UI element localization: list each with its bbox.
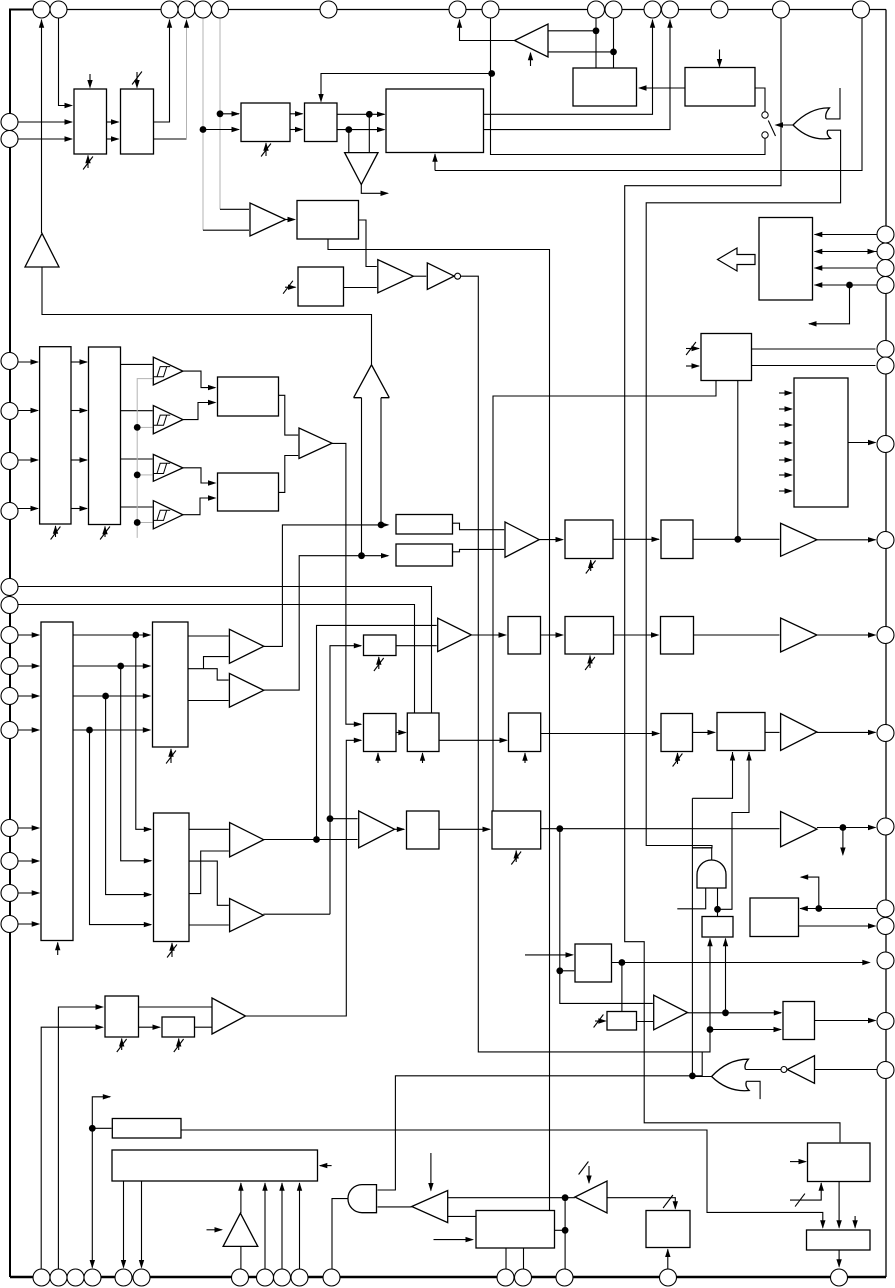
block D1	[298, 267, 344, 306]
bottom pin circles	[33, 1269, 50, 1286]
block AA2	[807, 1230, 871, 1250]
amp T13	[781, 714, 817, 751]
wire OR1 out to switch	[777, 124, 794, 126]
clock arrow A2 top	[136, 72, 138, 88]
wire pin c15 staircase to block AA1	[625, 18, 840, 1142]
wire net x316 T15-out up to T9	[317, 625, 437, 839]
wire X2 out to T18	[195, 1026, 212, 1028]
wire pin row into C1	[18, 361, 38, 363]
wire G1 out to T11	[453, 523, 505, 530]
wire T5 output long net to AND2 and W1	[461, 276, 710, 1052]
stub arrow into AA1 left	[790, 1161, 806, 1163]
wire T19 base to pin 240	[240, 1246, 242, 1269]
wire pin 265 up into Y2	[264, 1183, 266, 1269]
wire T20 out to AND3	[378, 1206, 412, 1208]
amp T3	[299, 428, 332, 459]
block K2a	[364, 714, 397, 752]
up amp T19	[223, 1213, 258, 1246]
block P2	[661, 617, 694, 655]
wire T11 to Q1	[539, 539, 562, 541]
amp TA	[229, 629, 263, 663]
block H1	[661, 520, 693, 559]
block Z1	[476, 1211, 555, 1249]
clock stub into D1	[285, 286, 296, 288]
vertical net x693 AND output	[691, 798, 693, 1076]
wire X1 to X2	[139, 1026, 160, 1028]
wire C3 out to T3	[279, 395, 299, 435]
wire pin2 to block A1	[59, 18, 72, 106]
arrow into A1 top	[89, 74, 91, 88]
wire Bh4 to C4	[183, 498, 215, 515]
wires Z1 bottom to pins 505 522	[505, 1248, 507, 1269]
stub arrow into E3	[779, 408, 792, 410]
amp T11	[505, 522, 539, 557]
wire P2 to T7	[694, 634, 780, 636]
clock arrow I3 bottom	[171, 943, 173, 957]
amp T18	[212, 998, 246, 1034]
wire Y1 out staircase to AA2	[181, 1130, 823, 1228]
wire D0 out jog to T4	[359, 220, 377, 267]
wire pin row into F1	[18, 695, 39, 697]
block M2	[661, 714, 693, 752]
wire pin c11 into B5 with tap to T_top	[613, 18, 615, 68]
amp T16	[230, 899, 264, 932]
wire pin 268 to E1	[815, 267, 878, 269]
wire F2 out1 to TA	[188, 635, 229, 637]
amp T7	[781, 618, 817, 652]
wire Bh3 to C4	[183, 468, 215, 483]
wire pin row into F1	[18, 729, 39, 731]
buffer T4	[378, 260, 414, 293]
wire AND3 out to pin 331	[332, 1199, 348, 1269]
wire pin row into F1	[18, 892, 39, 894]
AND gate AND1 pointing up	[697, 860, 726, 888]
wire TA up to G1 (W_a)	[264, 525, 388, 647]
wire F1 to F2 with tap to I3	[73, 665, 150, 667]
block E3	[794, 378, 848, 507]
block BB1	[646, 1211, 690, 1248]
wire T6 to pin 540	[817, 539, 876, 541]
wires B1 to B2	[290, 113, 303, 115]
wire X1 out1 to T18	[139, 1006, 212, 1008]
wire K2a to K2b	[396, 732, 406, 734]
wire B3 out2 to pin c13	[484, 20, 671, 130]
arrow into T_top bottom	[530, 53, 532, 66]
block C3	[218, 377, 279, 416]
wire M3 to T13	[765, 731, 780, 733]
right pin circles	[877, 226, 894, 243]
wire I3 out2 jog to T16	[189, 861, 229, 905]
wire AND1 output up-left to x693 net and OR1 net	[692, 848, 711, 860]
wire A2 out2 to pin c4 (gray riser)	[154, 138, 187, 140]
OR1 input1 stub from above	[826, 88, 840, 119]
wire T22 out to OR2	[745, 1069, 781, 1071]
wire P1 to P2	[614, 634, 659, 636]
wire pin c9 to switch contact	[491, 18, 766, 155]
stub arrow into E3	[779, 490, 792, 492]
wire B6 right to switch upper contact	[755, 88, 765, 112]
big arrow shaft right line	[380, 398, 382, 525]
stub arrow into Z1	[434, 1239, 473, 1241]
wire K2b to M1	[439, 739, 507, 741]
wire V1 out to pin 926	[799, 925, 876, 927]
wire Y2 bottom to pin 141	[141, 1181, 143, 1268]
clock arrow K1 bottom	[378, 657, 380, 669]
amp T14	[781, 812, 817, 847]
wire T15 out to T10 with riser tap	[264, 839, 358, 841]
big arrow shaft left line	[361, 398, 363, 556]
wire E2 out to pin 349	[752, 348, 876, 350]
block X2	[162, 1017, 195, 1037]
clock arrow X1 bottom	[121, 1039, 123, 1051]
block C1	[40, 347, 71, 524]
wire pin1 to up-buffer	[41, 20, 43, 234]
junction dot c5 branch to B1	[200, 126, 207, 133]
wire T7 to pin 635	[817, 634, 876, 636]
wire W1 out to pin 1021	[815, 1020, 876, 1022]
wire E2 out to pin 365	[752, 365, 876, 367]
wire pin row into C1	[18, 410, 38, 412]
wire C1 to C2	[71, 508, 87, 510]
wire pin row into C1	[18, 459, 38, 461]
block F2	[153, 622, 189, 747]
stub wire into V0	[525, 954, 573, 956]
wire T_top out to pin c8	[460, 20, 515, 41]
clock arrow P1 bottom	[589, 656, 591, 669]
wire I3 out1 to T15	[189, 828, 229, 830]
block U1	[607, 1012, 637, 1031]
wires A1 to A2	[107, 121, 119, 123]
amp T21 pointing left	[575, 1181, 607, 1213]
block X1	[105, 996, 139, 1037]
block A2	[121, 89, 154, 154]
wire pin row into F1	[18, 860, 39, 862]
hysteresis buffer Bh1	[153, 357, 183, 385]
wire N2 out to T14 with tap down	[541, 828, 780, 830]
amp T17	[654, 995, 688, 1030]
block P0	[508, 617, 541, 655]
wire pin 282 up into Y2	[281, 1183, 283, 1269]
wire pin 92 riser with dangling arrow and Y1 tap	[92, 1097, 110, 1268]
wire B3 bottom feedback from pin c16	[434, 154, 436, 171]
gray feedback bus for hysteresis buffers	[137, 379, 152, 538]
wire T9 to P0	[471, 634, 505, 636]
wire M3 bottom feed 1 from x693 net	[692, 752, 732, 798]
wire T19 up into Y2	[240, 1183, 242, 1213]
wire buffer out to big arrow apex	[42, 267, 372, 364]
gray wire pin c6 down	[219, 18, 221, 209]
stub arrow into E3	[779, 442, 792, 444]
wire M1 to M2	[541, 733, 659, 735]
clock arrow B1 bottom	[265, 143, 267, 156]
wire A2 out1 to pin c3	[154, 20, 170, 123]
block B6	[685, 68, 755, 107]
tall block F1	[41, 622, 73, 941]
clock arrow A1 bottom	[87, 156, 89, 169]
clock arrow Q1 bottom	[590, 560, 592, 571]
top pin circles	[33, 1, 50, 18]
arrow K2b bottom	[422, 753, 424, 763]
wire C1 to C2	[71, 410, 87, 412]
arrow into B6 top	[719, 50, 721, 67]
wire pin 908 to V1 with branch arrow	[800, 908, 877, 910]
wire pin 299 up into Y2	[299, 1183, 301, 1269]
wire M2 to M3	[693, 731, 715, 733]
wire N2 tap down to V0 and T17	[560, 829, 653, 1004]
wire T21 out to T20 with riser to pin 564	[448, 1197, 575, 1199]
inverter T5	[427, 263, 454, 290]
stub arrow into AA2 top	[854, 1216, 856, 1228]
wire feed B2 top from c9 net	[321, 74, 492, 102]
wire pin 234 to E1	[815, 234, 878, 236]
clock stub into U1	[595, 1020, 606, 1022]
wire AA2 out to pin 839	[838, 1250, 840, 1267]
block W1	[783, 1002, 815, 1040]
block V0	[575, 944, 612, 982]
clock arrow C2 bottom	[104, 527, 106, 538]
switch upper contact	[762, 112, 768, 118]
wire T16 out to riser x330	[263, 913, 330, 915]
wire F1 to F2 with tap to I3	[73, 695, 150, 697]
wire G2 out to T11	[453, 549, 505, 551]
block V1	[750, 898, 799, 937]
amp T9	[438, 618, 472, 651]
wire C4 out to T3	[279, 456, 299, 493]
wire F2 out2 split to TA and TB	[188, 669, 229, 680]
wire pin 251 to E1 double arrow	[815, 251, 878, 253]
wire Z1 out to T20	[448, 1215, 476, 1217]
wire pin row into C1	[18, 508, 38, 510]
wire B2 to B3 upper with tap	[337, 113, 385, 115]
switch blade	[768, 121, 775, 137]
hysteresis buffer Bh2	[153, 406, 183, 434]
amp T10	[359, 811, 395, 848]
block E2	[701, 334, 752, 381]
block N2	[492, 811, 541, 849]
wire I3 out3 jog to T15	[189, 851, 229, 894]
left-pointing amp T_top	[515, 24, 549, 57]
junction dot c6 branch to B1	[217, 110, 224, 117]
up-pointing buffer	[25, 233, 59, 267]
clock arrow M2 bottom	[677, 753, 679, 764]
arrow into T20 top	[430, 1153, 432, 1191]
block P1	[565, 617, 614, 655]
wire T12 to D0	[286, 219, 295, 221]
hysteresis buffer Bh4	[153, 501, 183, 529]
clock stub into E2	[686, 348, 699, 350]
wire K1 out to T9	[396, 645, 437, 647]
wire T4 to T5	[413, 275, 426, 277]
block E1	[759, 218, 813, 301]
stub arrow into E3	[779, 459, 792, 461]
OR gate OR1 pointing left	[793, 108, 831, 139]
OR gate OR2 pointing left	[712, 1059, 750, 1091]
block B3 main processor	[386, 89, 484, 153]
stub arrow into E3	[779, 424, 792, 426]
OR1 input2 long net to AND gate output	[646, 130, 840, 848]
wire B6 to B5	[639, 87, 685, 89]
wire E3 out to pin 444	[848, 442, 876, 444]
block Y2 long bus	[112, 1150, 318, 1181]
gray wire pin c5 down	[202, 18, 204, 230]
wire D0 bottom clock net down	[328, 239, 550, 1211]
block B5	[573, 68, 637, 106]
wire D1 out to T4	[344, 287, 377, 289]
wire pin 668 up into BB1	[667, 1249, 669, 1269]
block G1	[396, 515, 453, 535]
AND1 input stub left	[677, 888, 705, 909]
wire U1 to T17	[637, 1021, 654, 1023]
IC outline border	[10, 10, 34, 115]
amp T15	[230, 823, 264, 857]
long wire pin 587 to K2b top	[18, 587, 432, 713]
wire B3 out1 to pin c12	[484, 20, 653, 115]
wire into X1 upper from pin 58 riser	[58, 1007, 102, 1269]
wires pins to A1	[18, 121, 72, 123]
stub into E2 lower	[686, 365, 699, 367]
wire T13 to pin 733	[817, 731, 876, 733]
wire E2 bottom to N2 top	[493, 381, 716, 812]
big hollow arrow up	[354, 365, 390, 398]
OR2 input2 stub	[746, 1081, 760, 1099]
wire I3 out4 to T16	[189, 924, 229, 926]
wire pin row into F1	[18, 665, 39, 667]
clock arrow into T21 top	[588, 1166, 590, 1183]
wire Q1 to H1	[613, 538, 659, 540]
wire E2 bottom to tap	[737, 381, 739, 540]
block M3	[717, 713, 765, 751]
block C2	[89, 347, 121, 525]
wires C2 outputs to hysteresis buffers	[121, 363, 153, 365]
wire F2 out3 to TB	[188, 700, 229, 702]
block K1	[364, 635, 397, 656]
down triangle buffer T2	[345, 153, 378, 185]
wire F1 to F2 with tap to I3	[73, 729, 150, 731]
block D0	[297, 201, 359, 240]
amp TB	[229, 673, 263, 707]
stub arrow into E3	[779, 474, 792, 476]
block G2	[396, 544, 453, 566]
wire Y2 bottom to pin 123	[123, 1181, 125, 1268]
block Y1	[112, 1119, 181, 1139]
wire H1 to T6 with tap from E2	[693, 538, 780, 540]
block K2b	[407, 713, 439, 752]
wire OR2 output to long net	[692, 1076, 711, 1078]
AND gate AND3 pointing left	[348, 1185, 377, 1213]
buffer T12	[250, 203, 286, 236]
clock arrow C1 bottom	[55, 526, 57, 537]
hysteresis buffer Bh3	[153, 454, 183, 481]
block C4	[218, 473, 279, 511]
wire TB up to G2 (W_b)	[264, 556, 388, 690]
arrow M1 bottom	[524, 753, 526, 763]
stub arrow into E3	[779, 392, 792, 394]
wire pin c10 into B5 with tap to T_top	[595, 18, 597, 68]
clock arrow X2 bottom	[178, 1039, 180, 1051]
wire T18 out riser to K2a	[246, 740, 362, 1016]
wire T3 out down to K2a	[332, 443, 361, 724]
wire T2 out dangling arrow	[361, 185, 387, 194]
wire pin row into F1	[18, 827, 39, 829]
block B1	[241, 103, 290, 142]
block B2	[305, 103, 338, 142]
wire T14 to pin 826 with dangling down arrow	[817, 827, 876, 829]
wire AA1 down to AA2	[838, 1182, 840, 1228]
arrow into AND2 bottom right from T17 net	[725, 939, 727, 1013]
wire V0 out to pin 960 with tap to U1	[612, 962, 870, 964]
switch lower contact	[762, 132, 768, 138]
left pin circles	[1, 114, 18, 131]
clock arrow F2 bottom	[170, 749, 172, 763]
arrow K2a bottom	[377, 753, 379, 763]
wire net x330 T16-out up to K1 with tap to T10	[330, 646, 361, 915]
amp T20 pointing left	[412, 1191, 448, 1223]
wire P0 to P1	[541, 634, 563, 636]
block AA1	[808, 1143, 871, 1182]
wire into X1 lower from pin 41 riser	[41, 1027, 102, 1268]
wire Bh1 to C3	[183, 371, 215, 388]
wire pin row into F1	[18, 923, 39, 925]
stub arrow into Y2 right	[320, 1165, 332, 1167]
block AND2 latch	[702, 917, 733, 938]
stub arrow into T19	[207, 1229, 222, 1231]
hollow left arrow symbol	[718, 248, 756, 271]
wire N1 to N2	[439, 828, 490, 830]
wire T17 out to W1 with tap up to AND2	[688, 1012, 782, 1014]
amp T6	[781, 523, 817, 556]
wire C1 to C2	[71, 361, 87, 363]
inverter T22 pointing left	[787, 1056, 814, 1084]
wire pin 285 to E1 with branch	[815, 284, 878, 286]
arrow into F1 bottom	[57, 943, 59, 956]
wire pin row into F1	[18, 634, 39, 636]
block N1	[407, 811, 440, 849]
wire T10 to N1	[395, 828, 405, 830]
AND1 input stub right to dot	[717, 888, 719, 916]
long wire pin 605 to K2b top	[18, 605, 415, 713]
block Q1	[565, 520, 613, 559]
wire B2 to B3 lower with tap	[337, 129, 385, 131]
tall block I3	[154, 813, 190, 942]
wire C1 to C2	[71, 459, 87, 461]
long net y1076 to AND3	[378, 1052, 703, 1190]
wire F1 to F2 with tap to I3	[73, 634, 150, 636]
wire Bh2 to C3	[183, 403, 215, 420]
wire pin 1070 to T22	[815, 1069, 878, 1071]
wire M3 bottom feed 2 from AND gate net	[718, 752, 750, 909]
clock arrow N2 bottom	[515, 851, 517, 863]
block M1	[509, 713, 541, 752]
clock stub into AA1 bottom	[790, 1183, 821, 1200]
wire T21 base to BB1 clock	[607, 1198, 675, 1209]
block A1	[74, 89, 107, 154]
